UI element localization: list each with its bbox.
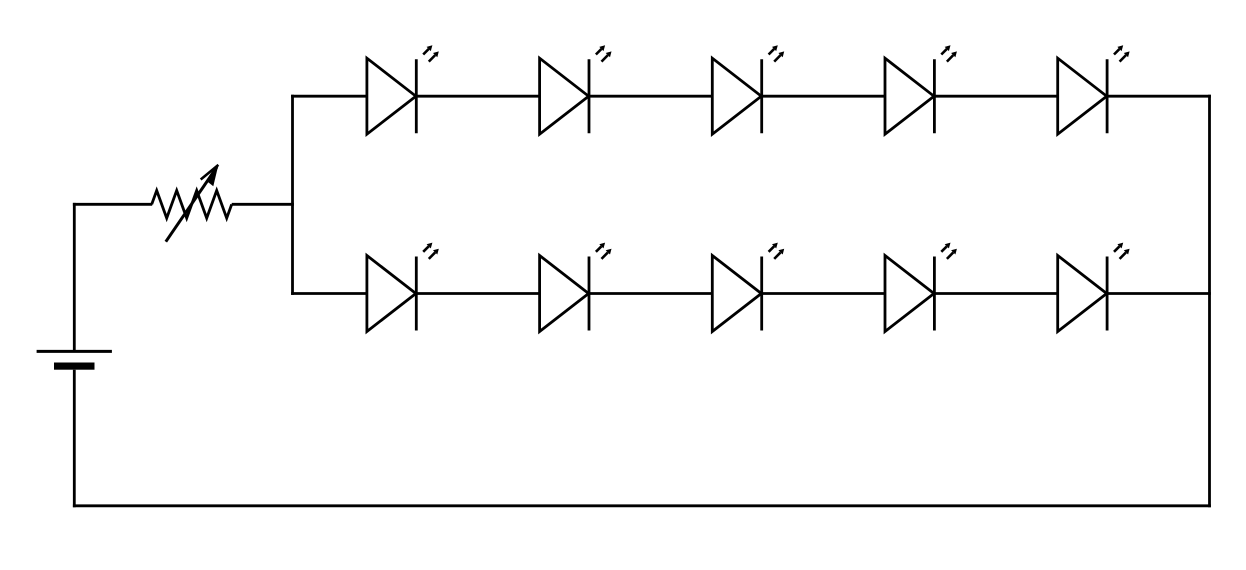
LED D4 <box>885 45 957 134</box>
wire <box>1107 95 1211 98</box>
LED D10 <box>1058 243 1130 332</box>
LED D2 <box>540 45 612 134</box>
wire <box>291 95 294 295</box>
wire <box>762 95 885 98</box>
LED D7 <box>540 243 612 332</box>
variable resistor R1 <box>152 165 232 242</box>
wire <box>1208 95 1211 507</box>
wire <box>762 292 885 295</box>
battery B1 <box>37 351 112 369</box>
LED D8 <box>712 243 784 332</box>
LED D3 <box>712 45 784 134</box>
wire <box>934 292 1057 295</box>
wire <box>291 292 367 295</box>
LED D5 <box>1058 45 1130 134</box>
wire <box>589 292 712 295</box>
wire <box>1107 292 1211 295</box>
wire <box>73 203 152 206</box>
wire <box>589 95 712 98</box>
wire <box>73 370 76 508</box>
LED D6 <box>367 243 439 332</box>
wire <box>416 292 539 295</box>
LED D9 <box>885 243 957 332</box>
wire <box>232 203 294 206</box>
wire <box>73 504 1211 507</box>
wire <box>416 95 539 98</box>
LED D1 <box>367 45 439 134</box>
wire <box>291 95 367 98</box>
wire <box>73 203 76 350</box>
wire <box>934 95 1057 98</box>
